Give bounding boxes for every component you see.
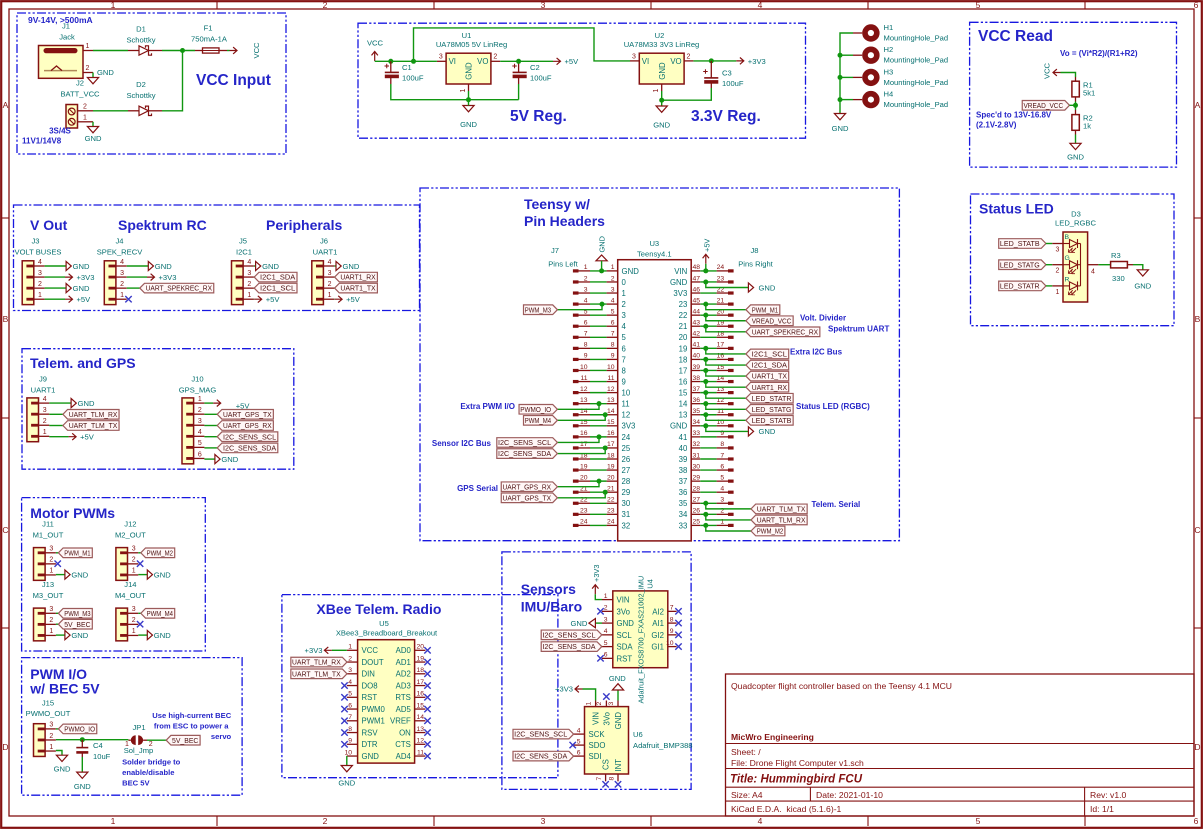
no-connect U4 pin 9 (675, 632, 681, 638)
hierarchical label PWM_M1 (746, 305, 780, 315)
wire to label UART1_TX (706, 370, 746, 376)
no-connect U5 pin 19 (424, 659, 430, 665)
svg-text:31: 31 (692, 452, 700, 459)
svg-text:40: 40 (679, 444, 688, 453)
svg-text:5k1: 5k1 (1083, 89, 1095, 98)
wire U1 VO to +5V (500, 60, 553, 62)
svg-text:LED_STATB: LED_STATB (752, 416, 792, 425)
svg-text:UART1: UART1 (313, 248, 338, 257)
wire J10 pin1 (204, 402, 213, 404)
svg-text:PWM1: PWM1 (362, 717, 385, 726)
junction J7 pin1 (599, 268, 604, 273)
svg-text:PWMO_IO: PWMO_IO (520, 405, 551, 414)
svg-text:UART1_TX: UART1_TX (752, 372, 787, 381)
svg-text:VO: VO (670, 57, 681, 66)
power +3V3 (736, 57, 765, 66)
svg-text:2: 2 (83, 103, 87, 110)
wire J6 pin4 (334, 265, 336, 267)
svg-text:UART_TLM_TX: UART_TLM_TX (292, 669, 341, 678)
ground symbol J13 (65, 631, 89, 640)
svg-text:1: 1 (584, 264, 588, 271)
svg-text:28: 28 (692, 486, 700, 493)
svg-text:RST: RST (617, 654, 633, 663)
svg-text:43: 43 (692, 320, 700, 327)
svg-text:GND: GND (653, 121, 670, 130)
ground symbol J5 pin4 (256, 261, 280, 270)
svg-text:C1: C1 (402, 63, 412, 72)
svg-text:3: 3 (120, 270, 124, 277)
svg-text:GND: GND (617, 619, 635, 628)
ground symbol U2 (653, 106, 670, 130)
wire J10 pin2 (204, 413, 217, 415)
junction row 22 (703, 501, 708, 506)
svg-text:1: 1 (460, 89, 467, 93)
svg-text:29: 29 (692, 474, 700, 481)
ground symbol J3 pin4 (66, 261, 90, 270)
svg-text:U1: U1 (462, 31, 472, 40)
svg-text:I2C_SENS_SCL: I2C_SENS_SCL (542, 630, 595, 639)
svg-text:MountingHole_Pad: MountingHole_Pad (884, 56, 949, 65)
power +3V3 U6 (555, 685, 582, 694)
svg-text:I2C1_SCL: I2C1_SCL (260, 284, 295, 293)
IC U6 Adafruit_BMP388 (574, 701, 693, 782)
hierarchical label UART_GPS_TX (501, 493, 557, 503)
label GND U6 (609, 674, 626, 683)
svg-text:from ESC to power a: from ESC to power a (154, 722, 229, 731)
wire to label UART_SPEKREC_RX (706, 326, 746, 332)
note BEC 2 (154, 722, 229, 731)
hierarchical label I2C_SENS_SDA (541, 642, 602, 652)
svg-text:4: 4 (1091, 269, 1095, 276)
svg-text:UART_GPS_RX: UART_GPS_RX (223, 421, 272, 430)
wire J9 pin3 (49, 413, 63, 415)
junction hole bus (838, 53, 843, 58)
junction VIN row (703, 268, 708, 273)
wire U2 VO to +3V3 (693, 60, 736, 62)
svg-text:5: 5 (577, 738, 581, 745)
ground symbol VCC read (1067, 143, 1084, 161)
junction row 24 (703, 523, 708, 528)
svg-text:UA78M33 3V3 LinReg: UA78M33 3V3 LinReg (624, 40, 700, 49)
svg-text:22: 22 (679, 311, 688, 320)
svg-text:2: 2 (49, 557, 53, 564)
svg-text:GND: GND (1067, 153, 1084, 162)
svg-text:3.3V Reg.: 3.3V Reg. (691, 108, 761, 125)
hierarchical label PWMO_IO (58, 724, 96, 734)
wire J2 to D2 (93, 110, 128, 112)
svg-text:9: 9 (611, 353, 615, 360)
header J8 pin rows (691, 264, 733, 527)
svg-text:100uF: 100uF (530, 74, 552, 83)
svg-text:12: 12 (622, 411, 631, 420)
svg-text:3V3: 3V3 (622, 422, 636, 431)
svg-text:22: 22 (607, 497, 615, 504)
section title VCC Input (196, 72, 271, 89)
svg-text:J2: J2 (76, 79, 84, 88)
svg-text:35: 35 (679, 499, 688, 508)
svg-text:10: 10 (607, 364, 615, 371)
svg-text:GND: GND (71, 631, 88, 640)
connector J10 GPS_MAG (179, 375, 217, 464)
svg-text:B: B (1195, 314, 1201, 324)
svg-text:GND: GND (155, 262, 172, 271)
svg-text:Rev: v1.0: Rev: v1.0 (1090, 790, 1127, 800)
note solder bridge 1 (122, 758, 181, 767)
svg-text:4: 4 (758, 816, 763, 826)
junction J7 row 21 (603, 490, 608, 495)
svg-text:J1: J1 (62, 22, 70, 31)
svg-text:Date: 2021-01-10: Date: 2021-01-10 (816, 790, 883, 800)
svg-text:SPEK_RECV: SPEK_RECV (97, 248, 144, 257)
svg-text:MountingHole_Pad: MountingHole_Pad (884, 34, 949, 43)
svg-text:13: 13 (679, 411, 688, 420)
svg-text:PWM_M1: PWM_M1 (752, 305, 778, 314)
hierarchical label I2C_SENS_SDA (217, 443, 278, 453)
svg-text:10: 10 (666, 640, 674, 647)
svg-text:J10: J10 (191, 375, 203, 384)
junction VREAD node (1073, 103, 1078, 108)
section title Status LED (979, 201, 1054, 217)
svg-text:7: 7 (348, 714, 352, 721)
svg-text:3: 3 (49, 606, 53, 613)
svg-text:D: D (1194, 742, 1200, 752)
connector J13 M3_OUT (33, 580, 64, 641)
svg-text:I2C_SENS_SDA: I2C_SENS_SDA (514, 752, 567, 761)
svg-text:I2C_SENS_SDA: I2C_SENS_SDA (223, 444, 276, 453)
mounting hole H3 (853, 67, 948, 87)
wire VCC bus to U2 (414, 28, 631, 61)
svg-text:3: 3 (328, 270, 332, 277)
section box regulators (358, 23, 806, 138)
svg-text:LED_STATR: LED_STATR (752, 394, 792, 403)
svg-text:5: 5 (348, 691, 352, 698)
svg-text:VO: VO (477, 57, 488, 66)
junction row 8 (703, 346, 708, 351)
hierarchical label UART_GPS_TX (217, 410, 273, 420)
svg-text:5: 5 (976, 816, 981, 826)
svg-text:MountingHole_Pad: MountingHole_Pad (884, 100, 949, 109)
wire to label I2C1_SCL (706, 348, 746, 354)
svg-text:AD0: AD0 (396, 646, 412, 655)
svg-text:1: 1 (120, 292, 124, 299)
section title Spektrum RC (118, 217, 207, 233)
svg-text:1: 1 (611, 264, 615, 271)
svg-text:C3: C3 (722, 69, 732, 78)
ground symbol J10 pin6 (215, 455, 239, 464)
hierarchical label I2C_SENS_SCL (541, 630, 602, 640)
wire J4 pin2 (127, 287, 140, 289)
power +5V J9 (69, 433, 95, 442)
connector J15 PWMO_OUT (26, 699, 71, 757)
svg-text:UART_TLM_RX: UART_TLM_RX (757, 516, 806, 525)
svg-text:37: 37 (679, 477, 688, 486)
svg-text:GND: GND (571, 619, 588, 628)
connector J7 Pins Left (548, 246, 578, 269)
svg-text:3: 3 (608, 702, 615, 706)
note GPS Serial (457, 484, 498, 493)
svg-text:GND: GND (832, 124, 849, 133)
svg-text:33: 33 (679, 521, 688, 530)
hierarchical label UART_GPS_RX (217, 421, 273, 431)
wire gnd stub U2 (661, 100, 663, 106)
wire J9 pin1 (49, 436, 68, 438)
wire LED_STATB to LED (1046, 243, 1052, 245)
svg-text:UART_TLM_TX: UART_TLM_TX (757, 504, 806, 513)
wire to label UART1_RX (706, 382, 746, 388)
svg-text:1: 1 (247, 292, 251, 299)
wire from label PWMO_IO (557, 404, 599, 410)
wire J9 pin2 (49, 425, 63, 427)
ground symbol C4 (74, 772, 91, 791)
svg-text:39: 39 (679, 455, 688, 464)
svg-text:11: 11 (417, 749, 424, 756)
wire J12 pin1 (138, 574, 147, 576)
hierarchical label I2C1_SDA (254, 272, 297, 282)
wire to label PWM_M1 (706, 304, 746, 310)
junction row 5 (703, 313, 708, 318)
svg-text:5V Reg.: 5V Reg. (510, 108, 567, 125)
svg-text:Status LED (RGBC): Status LED (RGBC) (796, 402, 870, 411)
svg-text:PWMO_OUT: PWMO_OUT (26, 709, 71, 718)
hierarchical label PWM_M3 (58, 609, 92, 619)
svg-text:10: 10 (344, 749, 352, 756)
wire +3V3 to U5 (332, 649, 347, 651)
no-connect U5 pin 6 (341, 706, 347, 712)
svg-text:1k: 1k (1083, 122, 1091, 131)
svg-text:1: 1 (38, 292, 42, 299)
jumper JP1 Sol_Jmp (124, 723, 154, 755)
svg-text:CS: CS (602, 759, 611, 770)
svg-text:27: 27 (692, 497, 700, 504)
svg-text:46: 46 (692, 286, 700, 293)
wire LED_STATG to LED (1046, 264, 1052, 266)
svg-text:34: 34 (692, 419, 700, 426)
svg-text:6: 6 (720, 463, 724, 470)
svg-text:UART_SPEKREC_RX: UART_SPEKREC_RX (752, 327, 819, 336)
svg-text:A: A (3, 100, 9, 110)
note BEC 1 (152, 711, 231, 720)
wire J3 pin3 (45, 276, 65, 278)
ground symbol Teensy right top (748, 283, 775, 292)
svg-text:33: 33 (692, 430, 700, 437)
ground symbol holes (832, 114, 849, 134)
svg-text:4: 4 (611, 297, 615, 304)
svg-text:DTR: DTR (362, 740, 378, 749)
svg-text:KiCad E.D.A. kicad (5.1.6)-1: KiCad E.D.A. kicad (5.1.6)-1 (731, 804, 842, 814)
diode D2 Schottky (126, 80, 162, 116)
svg-text:LED_STATR: LED_STATR (1000, 282, 1040, 291)
ground symbol J6 pin4 (336, 261, 360, 270)
wire J14 pin1 (138, 634, 147, 636)
svg-text:+5V: +5V (702, 239, 711, 252)
connector J8 Pins Right (738, 246, 773, 269)
wire to label VREAD_VCC (706, 315, 746, 321)
ground symbol status LED (1134, 270, 1151, 291)
svg-text:2: 2 (247, 281, 251, 288)
svg-text:Telem. and GPS: Telem. and GPS (30, 355, 136, 371)
wire from label I2C_SENS_SDA (557, 448, 605, 454)
svg-text:GND: GND (343, 262, 360, 271)
connector J11 M1_OUT (33, 520, 64, 581)
svg-text:100uF: 100uF (402, 74, 424, 83)
svg-text:3: 3 (584, 286, 588, 293)
svg-text:4: 4 (120, 259, 124, 266)
svg-text:Teensy4.1: Teensy4.1 (637, 250, 672, 259)
ground symbol U6 top (612, 684, 623, 690)
svg-text:24: 24 (607, 519, 615, 526)
svg-text:1: 1 (622, 289, 626, 298)
svg-text:24: 24 (580, 519, 588, 526)
svg-text:H2: H2 (884, 45, 894, 54)
capacitor C1 100uF (385, 61, 424, 84)
svg-text:1: 1 (49, 744, 53, 751)
wire R3 to gnd (1133, 265, 1143, 270)
note Sensor I2C Bus (432, 439, 492, 448)
hierarchical label LED_STATR (746, 393, 793, 403)
no-connect U4 RST (597, 655, 603, 661)
svg-text:26: 26 (692, 508, 700, 515)
power +3V3 J3 (65, 273, 94, 282)
svg-text:10: 10 (622, 389, 631, 398)
wire LED_STATR to LED (1046, 285, 1052, 287)
svg-text:8: 8 (348, 726, 352, 733)
svg-text:I2C1: I2C1 (236, 248, 252, 257)
wire from label PWM_M4 (557, 415, 605, 421)
hierarchical label 5V_BEC (166, 735, 200, 745)
section title Peripherals (266, 217, 342, 233)
connector J12 M2_OUT (115, 520, 146, 581)
svg-text:MicWro Engineering: MicWro Engineering (731, 732, 814, 742)
svg-text:4: 4 (328, 259, 332, 266)
note 11V1/14V8 (22, 137, 62, 146)
svg-text:UART1_RX: UART1_RX (340, 273, 375, 282)
svg-text:D: D (2, 742, 8, 752)
hierarchical label PWM_M2 (751, 526, 785, 536)
svg-text:J14: J14 (124, 580, 136, 589)
svg-text:3: 3 (132, 606, 136, 613)
svg-text:21: 21 (679, 322, 688, 331)
svg-text:23: 23 (607, 508, 615, 515)
svg-text:ON: ON (399, 728, 411, 737)
power VCC arrow (1043, 62, 1061, 79)
svg-text:UART_TLM_RX: UART_TLM_RX (292, 658, 341, 667)
svg-text:2: 2 (584, 275, 588, 282)
svg-text:1: 1 (111, 816, 116, 826)
svg-text:GND: GND (670, 422, 688, 431)
IC U4 Adafruit IMU (602, 576, 677, 704)
ground at J1 pin2 (92, 73, 94, 78)
regulator U2 UA78M33 (624, 31, 700, 92)
svg-text:J9: J9 (39, 375, 47, 384)
svg-text:H1: H1 (884, 23, 894, 32)
power +5V J6 (335, 295, 361, 304)
mounting hole H4 (853, 90, 948, 110)
svg-text:12: 12 (416, 738, 424, 745)
junction J7 row 13 (597, 401, 602, 406)
svg-text:Jack: Jack (59, 33, 75, 42)
wire to label UART_TLM_TX (706, 503, 751, 509)
svg-text:GND: GND (597, 236, 606, 252)
svg-text:VI: VI (642, 57, 649, 66)
hierarchical label PWM_M4 (141, 609, 175, 619)
hierarchical label UART1_TX (335, 283, 378, 293)
svg-text:6: 6 (577, 749, 581, 756)
hierarchical label PWM_M2 (141, 548, 175, 558)
ground symbol U1 (460, 106, 477, 130)
svg-text:Size: A4: Size: A4 (731, 790, 763, 800)
power +5V Teensy VIN (702, 239, 711, 264)
wire hole stub (840, 76, 853, 78)
svg-text:9: 9 (584, 353, 588, 360)
svg-text:LED_STATB: LED_STATB (1000, 239, 1040, 248)
svg-text:3: 3 (622, 311, 626, 320)
svg-text:DIN: DIN (362, 670, 375, 679)
hierarchical label I2C_SENS_SCL (217, 432, 278, 442)
svg-text:3Vo: 3Vo (617, 607, 631, 616)
svg-text:I2C_SENS_SCL: I2C_SENS_SCL (223, 432, 276, 441)
svg-text:VOLT BUSES: VOLT BUSES (15, 248, 62, 257)
no-connect U5 pin 16 (424, 694, 430, 700)
junction hole bus (838, 75, 843, 80)
section title V Out (30, 217, 68, 233)
svg-text:18: 18 (679, 355, 688, 364)
svg-text:F1: F1 (204, 24, 213, 33)
svg-text:6: 6 (1194, 0, 1199, 10)
svg-text:11: 11 (607, 375, 614, 382)
svg-text:GND: GND (74, 782, 91, 791)
no-connect J12 pin2 (137, 561, 143, 567)
svg-text:J6: J6 (320, 237, 328, 246)
no-connect U6 SDO (570, 742, 576, 748)
svg-text:4: 4 (38, 259, 42, 266)
resistor R1 5k1 (1072, 77, 1095, 102)
svg-text:C4: C4 (93, 741, 103, 750)
svg-text:+5V: +5V (77, 295, 92, 304)
svg-text:I2C_SENS_SCL: I2C_SENS_SCL (514, 730, 567, 739)
svg-text:I2C1_SDA: I2C1_SDA (752, 361, 788, 370)
wire J3 pin4 (45, 265, 67, 267)
svg-text:37: 37 (692, 386, 700, 393)
no-connect U5 pin 5 (341, 694, 347, 700)
svg-text:3: 3 (541, 0, 546, 10)
svg-text:Pin Headers: Pin Headers (524, 213, 605, 229)
svg-text:25: 25 (692, 519, 700, 526)
svg-text:2: 2 (49, 733, 53, 740)
svg-text:Spec'd to 13V-16.8V: Spec'd to 13V-16.8V (976, 111, 1052, 120)
svg-text:VCC Read: VCC Read (978, 28, 1053, 45)
svg-text:UART_TLM_TX: UART_TLM_TX (69, 421, 118, 430)
LED D3 LED_RGBC (1052, 210, 1098, 303)
svg-text:GND: GND (609, 674, 626, 683)
svg-text:Volt. Divider: Volt. Divider (800, 314, 846, 323)
hierarchical label PWM_M4 (524, 416, 558, 426)
svg-text:30: 30 (692, 463, 700, 470)
svg-text:11: 11 (580, 375, 587, 382)
svg-text:2: 2 (1056, 268, 1060, 275)
connector J1 Jack (39, 22, 94, 79)
power +5V J3 (65, 295, 91, 304)
svg-text:1: 1 (125, 741, 129, 748)
svg-text:Solder bridge to: Solder bridge to (122, 758, 181, 767)
svg-text:2: 2 (323, 0, 328, 10)
svg-text:8: 8 (608, 777, 615, 781)
junction J7 row 20 (597, 479, 602, 484)
svg-text:SCK: SCK (589, 730, 606, 739)
ground symbol J7 pin1 (596, 236, 607, 261)
svg-text:16: 16 (416, 691, 424, 698)
svg-text:1: 1 (111, 0, 116, 10)
svg-text:9: 9 (622, 377, 626, 386)
